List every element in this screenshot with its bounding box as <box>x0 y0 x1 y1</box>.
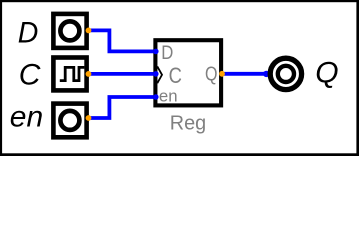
node: input C output pin dot <box>86 71 92 77</box>
input pin D (square with circle) <box>53 14 86 48</box>
svg-text:Q: Q <box>205 63 218 86</box>
node: register D pin dot <box>153 49 159 55</box>
node: register C pin dot <box>153 71 159 77</box>
border frame <box>0 0 359 156</box>
svg-text:D: D <box>18 16 39 49</box>
output pin Q (double circle) <box>270 58 301 89</box>
register clock chevron <box>157 66 162 83</box>
svg-text:en: en <box>10 100 43 133</box>
svg-text:Reg: Reg <box>170 113 206 135</box>
node: input D output pin dot <box>86 28 92 34</box>
svg-text:D: D <box>161 43 173 64</box>
svg-text:Q: Q <box>315 57 338 90</box>
node: register Q output pin dot <box>219 71 225 77</box>
wire Q: register Q pin to output <box>222 72 267 76</box>
wire en: input en to register en pin <box>89 97 156 118</box>
svg-text:C: C <box>169 63 182 88</box>
svg-text:en: en <box>159 87 178 105</box>
input pin C (clock, square with waveform) <box>53 58 86 91</box>
node: input en output pin dot <box>86 115 92 121</box>
wire C: input C to register clock pin <box>89 72 156 76</box>
wire D: input D to register D pin <box>89 30 156 51</box>
input pin en (square with circle) <box>53 104 86 138</box>
node: output pin dot <box>263 71 269 77</box>
node: register en pin dot <box>153 94 159 100</box>
svg-text:C: C <box>19 58 41 91</box>
register U1 body <box>155 40 221 105</box>
